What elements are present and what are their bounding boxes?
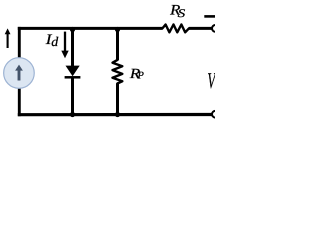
svg-text:P: P bbox=[137, 71, 145, 82]
svg-text:S: S bbox=[178, 7, 186, 20]
svg-text:d: d bbox=[51, 34, 58, 49]
svg-text:V: V bbox=[207, 68, 215, 93]
